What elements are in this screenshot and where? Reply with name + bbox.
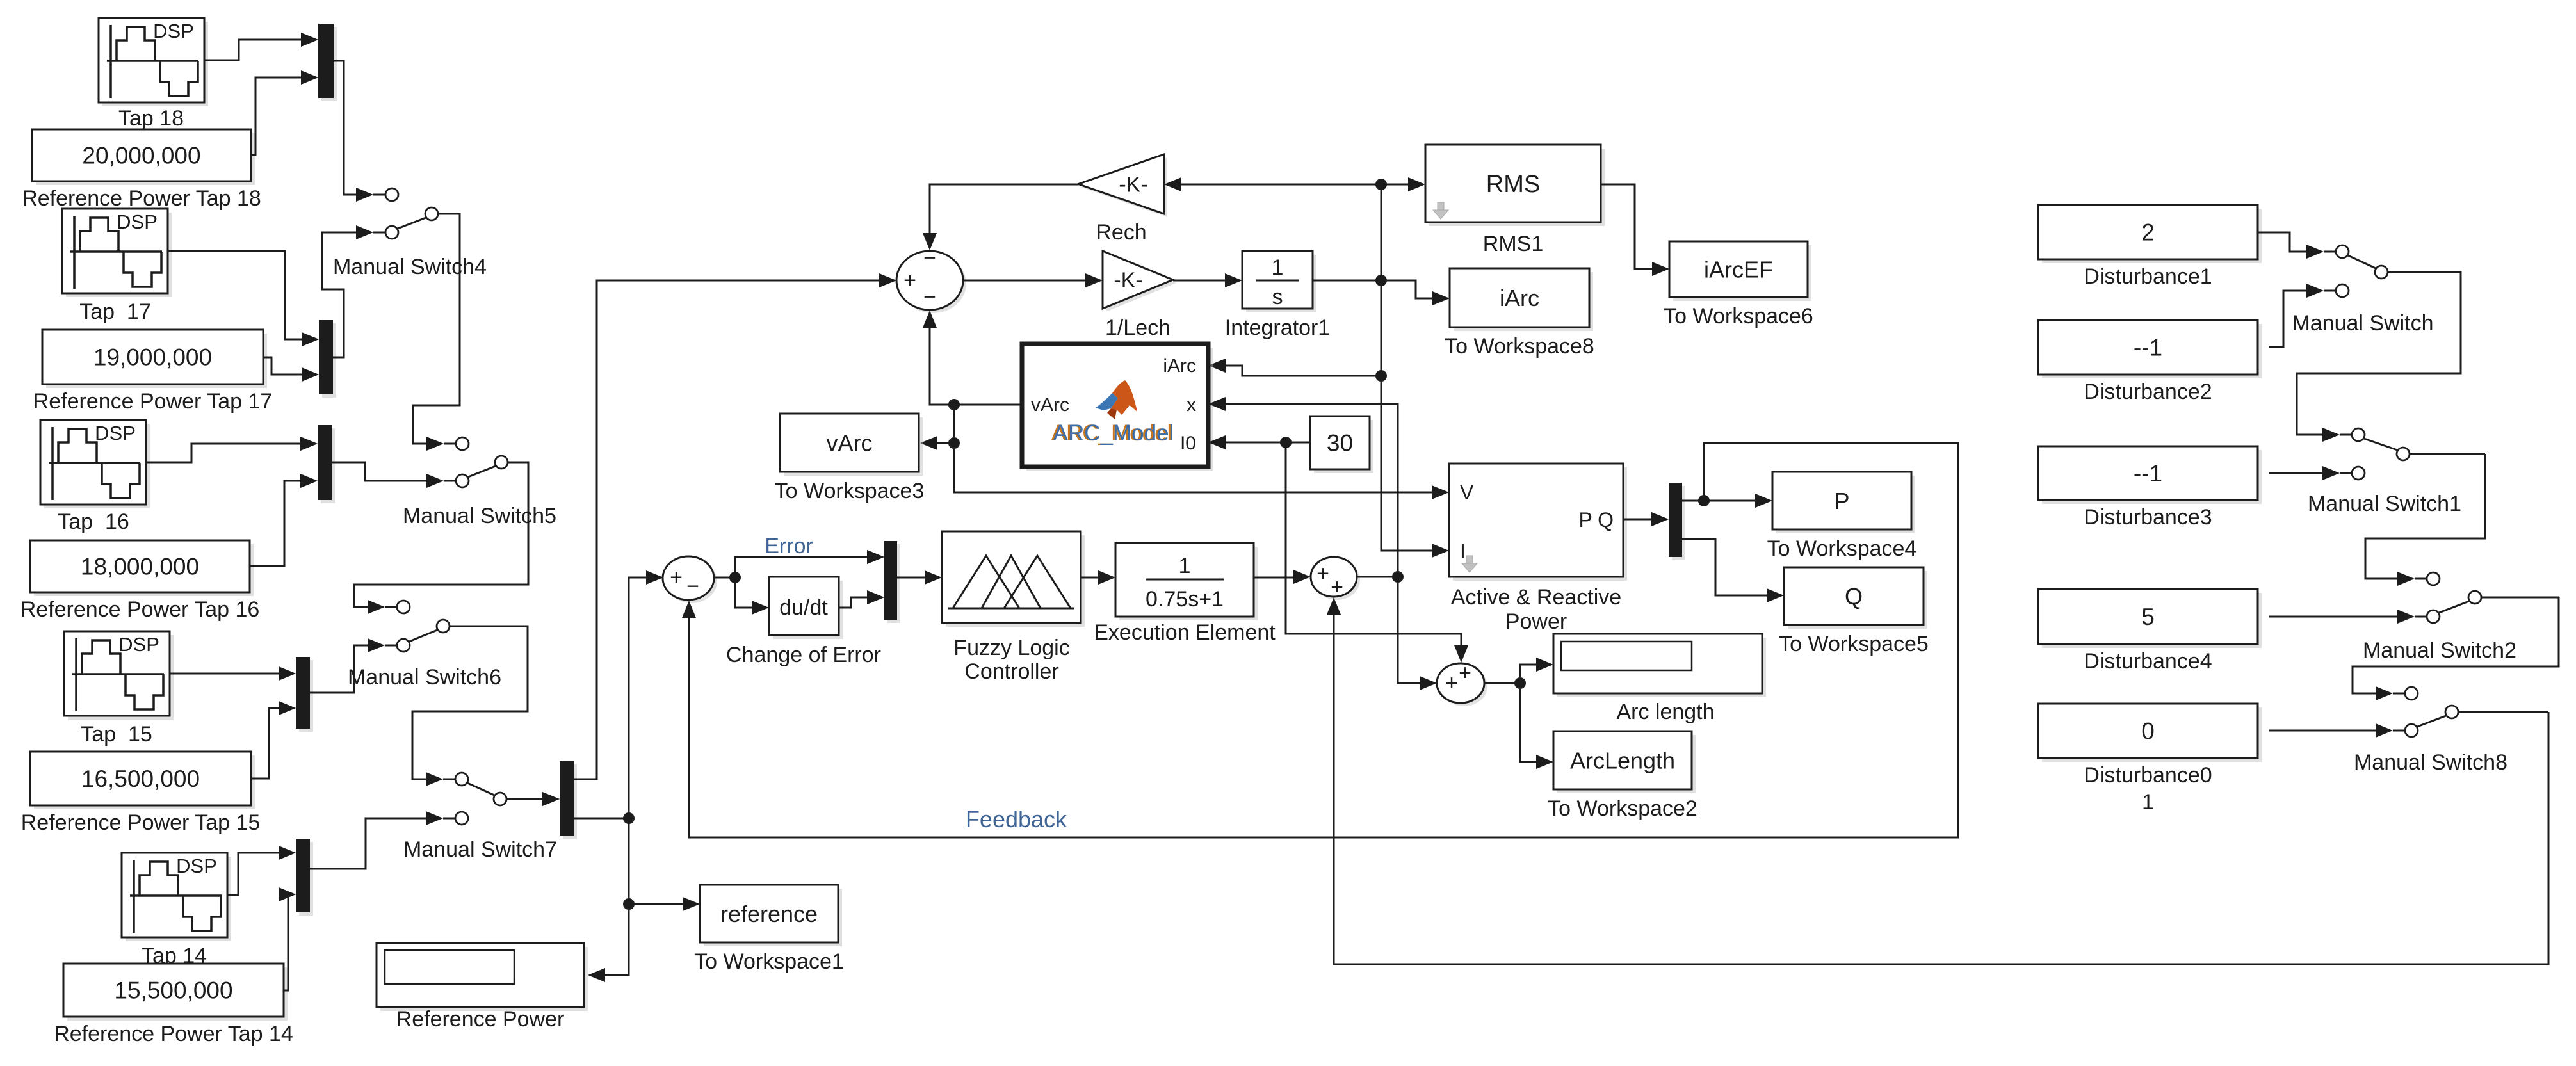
mux Mux7 reference select: [542, 761, 577, 839]
wire Mux8 to Fuzzy Logic Controller: [897, 577, 925, 579]
svg-text:RMS1: RMS1: [1483, 232, 1543, 256]
wire 30 to Sum3 top: [1286, 442, 1461, 647]
block To Workspace4 (To Workspace sink): [1772, 472, 1915, 533]
mux Mux8 error vector: [867, 541, 900, 623]
block Tap 17 (DSP signal source): [62, 209, 172, 297]
constant 30 (30): [1310, 416, 1373, 473]
wire Tap14 to Mux: [227, 853, 279, 895]
block Tap 14 (DSP signal source): [122, 853, 231, 941]
gain 1/Lech: [1103, 251, 1176, 312]
block RMS1: [1425, 145, 1605, 226]
svg-text:Fuzzy Logic: Fuzzy Logic: [953, 636, 1069, 660]
svg-text:DSP: DSP: [118, 633, 159, 656]
svg-text:Controller: Controller: [964, 659, 1058, 684]
wire Mux Tap17 to Manual Switch4: [322, 232, 357, 357]
svg-text:ARC_Model: ARC_Model: [1053, 421, 1174, 446]
wire Disturbance4 to Manual Switch2: [2269, 616, 2398, 618]
svg-text:-K-: -K-: [1119, 173, 1147, 197]
wire Manual Switch8 to Sum2 bottom (disturbance injection): [1334, 613, 2548, 964]
svg-text:Tap 15: Tap 15: [81, 722, 152, 747]
junction Sum2 output node: [1392, 571, 1404, 583]
constant Disturbance3 (--1): [2038, 446, 2262, 504]
mux Mux Tap15: [279, 657, 313, 732]
svg-text:x: x: [1187, 394, 1196, 416]
svg-text:To Workspace3: To Workspace3: [775, 479, 925, 503]
svg-text:DSP: DSP: [176, 855, 217, 877]
block Tap 16 (DSP signal source): [40, 420, 150, 508]
sum Sum1: [896, 246, 966, 313]
constant Disturbance2 (--1): [2038, 320, 2262, 378]
wire Rech to Sum1 top: [930, 184, 1078, 234]
svg-text:Disturbance3: Disturbance3: [2084, 505, 2212, 529]
svg-text:To Workspace6: To Workspace6: [1664, 304, 1813, 328]
wire RMS1 to To Workspace6: [1601, 184, 1653, 269]
wire Mux7 to Sum1: [574, 280, 880, 779]
wire Tap17 to Mux: [168, 251, 302, 339]
wire Fuzzy Logic Controller to Execution Element: [1081, 577, 1099, 579]
svg-text:Reference Power Tap 14: Reference Power Tap 14: [54, 1022, 293, 1046]
wire Reference Power Tap 16 to Mux: [250, 481, 301, 566]
svg-text:−: −: [923, 285, 936, 309]
wire du/dt to Mux: [839, 597, 868, 608]
svg-text:Manual Switch4: Manual Switch4: [333, 255, 487, 279]
block Tap 18 (DSP signal source): [99, 18, 208, 106]
svg-text:Manual Switch6: Manual Switch6: [348, 665, 501, 690]
svg-text:Manual Switch2: Manual Switch2: [2363, 638, 2516, 663]
mux Mux Tap14: [279, 839, 313, 916]
mux Mux Tap18: [301, 24, 337, 101]
svg-text:Error: Error: [765, 534, 813, 558]
switch Manual Switch5: [426, 437, 528, 488]
svg-text:Tap 16: Tap 16: [58, 510, 129, 534]
switch Manual Switch6: [368, 600, 528, 652]
svg-text:Change of Error: Change of Error: [726, 643, 881, 667]
wire Manual Switch5 to Manual Switch6: [354, 462, 528, 607]
svg-text:To Workspace2: To Workspace2: [1548, 796, 1697, 821]
block To Workspace2 (To Workspace sink): [1553, 731, 1696, 793]
constant Reference Power Tap 17 (19,000,000): [42, 330, 267, 388]
svg-text:Disturbance2: Disturbance2: [2084, 380, 2212, 404]
wire Reference Power Tap 18 to Mux: [251, 77, 302, 155]
svg-text:15,500,000: 15,500,000: [114, 978, 232, 1004]
sum Sum2: [1311, 557, 1360, 600]
svg-text:-K-: -K-: [1114, 268, 1142, 293]
svg-text:P: P: [1834, 488, 1849, 514]
block To Workspace3 (To Workspace sink): [780, 414, 923, 476]
block To Workspace8 (To Workspace sink): [1450, 268, 1593, 331]
svg-text:To Workspace1: To Workspace1: [694, 949, 844, 974]
wire Mux Tap16 to Manual Switch5: [332, 462, 427, 481]
svg-text:Power: Power: [1505, 610, 1567, 634]
wire Mux Tap14 to Manual Switch7: [310, 818, 426, 869]
svg-text:Reference Power Tap 17: Reference Power Tap 17: [33, 389, 273, 414]
svg-text:18,000,000: 18,000,000: [81, 554, 199, 580]
switch Manual Switch8: [2376, 686, 2548, 738]
svg-text:+: +: [1331, 575, 1343, 599]
wire Manual Switch2 to Manual Switch8: [2353, 597, 2559, 693]
svg-text:Q: Q: [1845, 583, 1863, 610]
switch Manual Switch1: [2322, 428, 2485, 480]
wire Reference Power Tap 15 to Mux: [251, 708, 279, 779]
svg-text:--1: --1: [2134, 460, 2162, 487]
svg-text:1: 1: [1179, 554, 1191, 578]
block Arc length (Display): [1553, 634, 1766, 697]
svg-text:Disturbance0: Disturbance0: [2084, 763, 2212, 787]
wire Tap16 to Mux: [146, 444, 301, 462]
svg-text:20,000,000: 20,000,000: [82, 143, 200, 169]
svg-text:Reference Power Tap 18: Reference Power Tap 18: [22, 186, 261, 211]
svg-text:Manual Switch5: Manual Switch5: [403, 504, 556, 528]
svg-text:ArcLength: ArcLength: [1570, 748, 1675, 774]
svg-text:I0: I0: [1180, 433, 1196, 454]
svg-text:+: +: [903, 268, 916, 293]
wire Mux7 to Error Sum and reference sinks: [574, 818, 629, 820]
junction vArc node lower: [948, 437, 960, 449]
block Integrator1: [1242, 251, 1316, 312]
svg-text:1/Lech: 1/Lech: [1105, 316, 1171, 340]
wire Reference Power Tap 17 to Mux: [263, 357, 302, 375]
svg-text:DSP: DSP: [95, 422, 136, 444]
wire Manual Switch4 to Manual Switch5: [413, 214, 460, 444]
svg-text:vArc: vArc: [1031, 394, 1069, 416]
wire Disturbance1 to Manual Switch: [2258, 232, 2306, 252]
svg-text:vArc: vArc: [827, 430, 873, 456]
svg-text:Manual Switch7: Manual Switch7: [403, 837, 557, 862]
svg-text:iArcEF: iArcEF: [1704, 257, 1773, 283]
wire Disturbance3 to Manual Switch1: [2269, 472, 2323, 474]
svg-text:Execution Element: Execution Element: [1094, 620, 1276, 645]
svg-text:iArc: iArc: [1500, 285, 1539, 311]
mux Mux Tap16: [300, 425, 335, 503]
switch Manual Switch4: [356, 188, 460, 239]
svg-text:P Q: P Q: [1578, 508, 1614, 531]
svg-text:I: I: [1460, 540, 1466, 563]
svg-text:Tap 18: Tap 18: [118, 106, 184, 131]
block To Workspace1 (To Workspace sink): [700, 885, 842, 946]
wire Sum3 outputs: [1484, 682, 1520, 684]
junction reference node: [623, 898, 635, 910]
wire Mux Tap15 to Manual Switch6: [310, 645, 368, 693]
block Fuzzy Logic Controller: [942, 531, 1085, 627]
svg-text:--1: --1: [2134, 335, 2162, 361]
wire Demux P output: [1682, 500, 1756, 502]
svg-text:V: V: [1460, 481, 1474, 504]
svg-text:Rech: Rech: [1096, 220, 1146, 245]
junction integrator output node: [1375, 275, 1387, 286]
constant Reference Power Tap 15 (16,500,000): [30, 752, 255, 809]
wire Reference Power Tap 14 to Mux: [279, 894, 288, 990]
svg-text:19,000,000: 19,000,000: [93, 344, 212, 371]
svg-text:Feedback: Feedback: [966, 806, 1067, 832]
svg-text:To Workspace4: To Workspace4: [1767, 537, 1917, 561]
svg-text:Manual Switch8: Manual Switch8: [2354, 750, 2507, 775]
wire Tap15 to Mux: [170, 673, 279, 675]
svg-text:To Workspace8: To Workspace8: [1445, 334, 1594, 359]
svg-text:+: +: [670, 565, 683, 590]
wire Error Sum output to Mux and du/dt: [714, 577, 735, 579]
svg-text:1: 1: [2142, 790, 2154, 814]
sum Error Sum: [663, 556, 717, 603]
junction integrator output to RMS: [1375, 179, 1387, 190]
svg-text:30: 30: [1327, 430, 1353, 456]
wire Manual Switch1 to Manual Switch2: [2365, 454, 2485, 579]
wire 1/Lech to Integrator1: [1173, 280, 1226, 282]
svg-text:Integrator1: Integrator1: [1225, 316, 1330, 340]
wire Manual Switch to Manual Switch1: [2297, 271, 2461, 435]
wire Disturbance2 to Manual Switch: [2269, 291, 2306, 347]
junction Sum3 output: [1514, 677, 1526, 689]
svg-text:Manual Switch1: Manual Switch1: [2308, 492, 2461, 516]
svg-text:Manual Switch: Manual Switch: [2292, 311, 2433, 335]
mux Mux Tap17: [302, 320, 336, 398]
svg-text:1: 1: [1272, 255, 1284, 280]
svg-text:Reference Power Tap 15: Reference Power Tap 15: [21, 811, 261, 835]
block Execution Element: [1115, 543, 1258, 620]
wire Integrator1 output trunk: [1313, 280, 1381, 282]
constant Reference Power Tap 16 (18,000,000): [30, 540, 254, 596]
junction vArc node upper: [948, 399, 960, 410]
constant Reference Power Tap 18 (20,000,000): [32, 129, 255, 185]
junction 30 output node: [1280, 437, 1292, 448]
wire Tap18 to Mux: [204, 40, 302, 60]
svg-text:+: +: [1316, 561, 1329, 586]
wire P feedback to Error Sum: [689, 443, 1958, 837]
svg-text:Disturbance1: Disturbance1: [2084, 264, 2212, 289]
junction iArc feedback node: [1375, 370, 1387, 382]
block Reference Power (Display): [377, 943, 588, 1011]
junction error output: [729, 572, 741, 583]
switch Manual Switch2: [2397, 572, 2559, 624]
svg-text:0.75s+1: 0.75s+1: [1146, 587, 1224, 611]
block ARC_Model (MATLAB Function): [1022, 344, 1213, 471]
block To Workspace6 (To Workspace sink): [1669, 241, 1811, 301]
svg-text:Disturbance4: Disturbance4: [2084, 649, 2212, 674]
svg-text:reference: reference: [720, 901, 818, 927]
wire vArc output node: [954, 404, 1023, 406]
block To Workspace5 (To Workspace sink): [1784, 567, 1927, 629]
mux Demux PQ: [1651, 483, 1685, 560]
block Tap 15 (DSP signal source): [64, 631, 174, 720]
sum Sum3: [1437, 661, 1487, 706]
switch Manual Switch: [2306, 245, 2461, 298]
svg-text:0: 0: [2141, 718, 2155, 745]
svg-text:DSP: DSP: [117, 211, 158, 233]
svg-text:Reference Power Tap 16: Reference Power Tap 16: [20, 597, 260, 622]
svg-text:DSP: DSP: [153, 20, 194, 42]
svg-text:5: 5: [2141, 604, 2155, 630]
wire Disturbance0 to Manual Switch8: [2269, 730, 2376, 732]
svg-text:2: 2: [2141, 220, 2155, 246]
wire Mux Tap18 to Manual Switch4: [334, 61, 357, 195]
block Active & Reactive Power: [1449, 464, 1627, 581]
wire PQ to Demux: [1623, 519, 1652, 521]
constant Reference Power Tap 14 (15,500,000): [63, 964, 288, 1021]
svg-text:Active & Reactive: Active & Reactive: [1451, 585, 1621, 610]
svg-text:16,500,000: 16,500,000: [81, 766, 200, 792]
svg-text:s: s: [1272, 285, 1283, 309]
wire 30 to ARC_Model I0: [1225, 442, 1310, 444]
switch Manual Switch7: [426, 772, 506, 825]
gain Rech: [1078, 154, 1167, 217]
constant Disturbance0 (0): [2038, 704, 2262, 762]
wire Sum1 to 1/Lech: [963, 280, 1086, 282]
wire Manual Switch7 to Mux7: [507, 798, 543, 800]
svg-text:−: −: [686, 574, 699, 599]
wire Demux Q output: [1682, 539, 1767, 595]
svg-text:du/dt: du/dt: [779, 595, 828, 620]
svg-text:Arc length: Arc length: [1616, 700, 1714, 724]
constant Disturbance1 (2): [2038, 205, 2262, 263]
wire Execution Element to Sum2: [1254, 577, 1294, 579]
svg-text:Tap 17: Tap 17: [79, 300, 151, 324]
svg-text:Reference Power: Reference Power: [396, 1007, 565, 1031]
svg-text:+: +: [1445, 671, 1458, 695]
junction P output node: [1698, 495, 1710, 506]
wire Sum2 to ARC_Model x and Sum3: [1357, 576, 1398, 578]
svg-text:RMS: RMS: [1486, 171, 1540, 198]
wire Manual Switch6 to Manual Switch7: [412, 626, 528, 779]
svg-text:To Workspace5: To Workspace5: [1779, 632, 1929, 656]
junction mux7 output node: [623, 812, 635, 824]
svg-text:+: +: [1459, 661, 1471, 685]
constant Disturbance4 (5): [2038, 589, 2262, 648]
svg-text:iArc: iArc: [1163, 355, 1196, 376]
block Change of Error (du/dt): [769, 577, 843, 639]
